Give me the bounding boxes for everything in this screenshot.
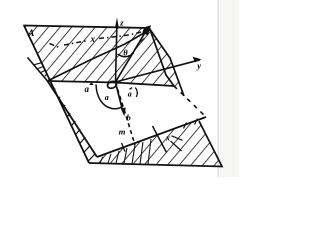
svg-text:m: m — [119, 127, 126, 137]
plane B top edge (through hatching) — [48, 30, 151, 82]
svg-text:A: A — [27, 29, 34, 39]
x dash-dot line (upper) — [50, 30, 148, 48]
plane A right edge visible lower part — [89, 121, 222, 167]
plane B right edge hidden dashed part — [174, 86, 206, 117]
ticks crossing plane B bottom edge near triangle — [184, 123, 187, 129]
plane A right edge visible upper part — [149, 28, 184, 96]
svg-text:y: y — [196, 61, 201, 71]
y axis — [116, 60, 201, 82]
plane A (large hatched parallelogram) — [24, 26, 222, 167]
svg-text:z: z — [119, 18, 124, 28]
origin loop — [107, 80, 118, 89]
svg-text:a: a — [105, 93, 109, 102]
big angle arc below origin + label a — [96, 85, 123, 109]
z axis — [116, 25, 117, 82]
b vector — [116, 83, 123, 111]
intersection trace line — [48, 81, 175, 86]
ladder ticks bottom band — [100, 139, 151, 164]
trace tick triangle — [89, 82, 93, 85]
plane B right edge solid part — [150, 30, 174, 87]
normal vector to top-right corner — [116, 31, 147, 82]
svg-text:a: a — [85, 84, 90, 94]
plane B top-left spur segment — [28, 58, 48, 82]
svg-text:θ: θ — [123, 48, 128, 58]
svg-text:x: x — [165, 134, 170, 143]
theta angle arc + label — [118, 53, 134, 57]
page background right seam — [219, 0, 239, 177]
plane B left edge — [48, 81, 98, 157]
svg-text:x: x — [90, 34, 96, 44]
tick crossing bottom edge — [122, 143, 126, 152]
ladder ticks top-left wedge — [34, 63, 47, 76]
plane B visible front part (white quad hiding hatching) — [48, 81, 207, 157]
svg-text:a: a — [128, 90, 132, 99]
plane B bottom edge — [97, 117, 206, 157]
ladder ticks left wedge — [54, 89, 95, 162]
plane A outline — [24, 26, 149, 164]
m dashed line — [118, 89, 136, 145]
x label lower-right + steep ticks — [153, 126, 167, 153]
